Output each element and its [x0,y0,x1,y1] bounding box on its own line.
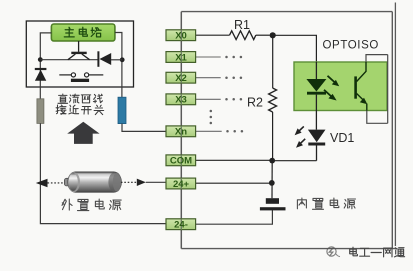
external battery cylinder [64,172,121,192]
label 接近开关 [56,105,104,115]
wire: 24- row right to internal battery return [196,210,273,224]
terminal COM [166,155,196,167]
wire: left lead from gray bar down to 24- terminal [40,123,166,223]
wire: blue bar down to Xn terminal [122,124,166,132]
svg-text:X1: X1 [175,52,187,63]
wire: junction to optocoupler branch [276,35,317,62]
watermark 电工一网通 [350,247,405,257]
node: left junction dot [38,57,43,62]
wire: terminal column vertical [180,12,182,249]
arrowhead pointing right toward 24+ [137,179,146,186]
terminal X1 [166,52,196,64]
terminal X2 [166,72,196,84]
wire: R2 down to COM junction [272,112,274,160]
terminal 24+ [166,178,196,190]
switch contact (reed/output) [59,73,103,82]
wire: main circuit right lead down right side [115,33,122,98]
wire: opto box bottom to VD1 [315,111,317,130]
label 内置电源 [297,198,355,209]
node B: COM junction dot [269,158,275,164]
blue wire bar (sensor lead 2) [118,97,126,123]
wire: X2 row stub [196,77,221,79]
node: right junction dot [120,57,125,62]
dotted lead battery left [48,182,66,184]
label 直流两线 [58,94,103,103]
label 主电路 [64,27,101,37]
terminal 24- [166,219,196,231]
svg-text:OPTOISO: OPTOISO [323,40,379,52]
photon arrows LED to transistor [324,76,339,101]
svg-text:24-: 24- [174,220,188,231]
node: X3 continuation dots [225,98,242,101]
label 外置电源 [62,199,121,211]
arrowhead pointing left at external supply [36,179,48,187]
LED inside optocoupler [306,62,326,111]
terminal Xn [166,126,196,138]
node: X1 continuation dots [225,56,242,59]
brown/gray wire bar (sensor lead 1) [37,99,44,124]
wire: PLC top bus from terminal column to right edge [181,11,392,13]
wire: arrow to 24+ terminal [146,181,166,183]
op-amp U1: optocoupler OPTOISO box [294,62,387,111]
wire: VD1 to COM junction [272,160,316,162]
svg-text:VD1: VD1 [330,131,354,145]
wire: bracket vertical (to PLC internal circuit) [387,55,389,124]
LED VD1 [308,130,326,161]
wire: emitter lead to internal bus bracket [367,111,388,124]
node: vertical ellipsis between X3 and Xn [210,110,213,125]
wire: junction down to R2 [272,35,274,88]
node A: R1 output junction [270,32,276,38]
watermark logo [327,247,340,257]
svg-text:X2: X2 [175,73,187,84]
svg-text:X3: X3 [175,95,187,106]
resistor R2 [247,88,277,112]
wire: PLC bottom bus [181,248,397,250]
diode D (series, cathode left) [98,51,122,67]
svg-text:COM: COM [170,156,192,167]
wire: PLC right edge inner vertical [391,12,393,249]
wire: X1 row stub [196,56,221,58]
node: X2 continuation dots [225,76,242,79]
wire: Xn row stub [196,130,222,132]
svg-text:Xn: Xn [175,127,187,138]
svg-text:R1: R1 [234,18,250,32]
wire: main circuit left lead down left side [40,33,51,99]
proximity switch enclosure box [26,21,133,87]
big up arrow (sensing direction) [67,122,99,144]
wire: transistor/diode row [40,59,98,61]
internal battery (内置电源) [260,198,286,210]
VD1 emission arrows [295,126,306,147]
terminal X3 [166,94,196,106]
transistor Q (output stage) [68,41,90,60]
node C: 24+ junction dot [269,180,275,186]
phototransistor inside optocoupler [356,62,368,111]
zener diode (reverse protection) [35,69,47,81]
svg-text:R2: R2 [247,96,263,110]
wire: COM row to junction [196,159,273,161]
wire: 24+ row to junction [196,182,272,184]
wire: collector lead to internal bus bracket [366,55,388,62]
wire: X0 row to R1 [196,34,230,36]
dotted lead battery right [121,181,137,183]
wire: X3 row stub [196,98,221,100]
wire: COM junction down through 24+ junction to battery [271,161,273,199]
svg-text:24+: 24+ [173,179,190,190]
resistor R1 [230,18,270,40]
svg-text:X0: X0 [175,31,187,42]
terminal X0 [166,30,196,42]
wire: PLC right edge outer vertical [394,3,396,247]
node: Xn continuation dots [226,130,243,133]
